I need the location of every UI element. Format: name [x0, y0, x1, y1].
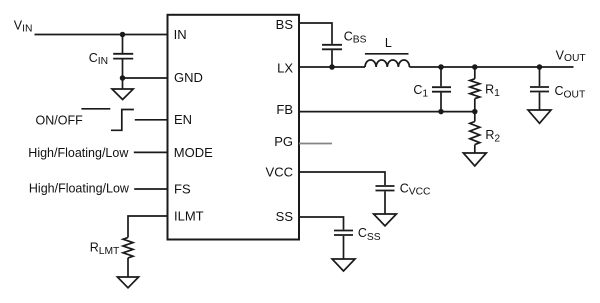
- ground (CVCC): [374, 214, 397, 226]
- inductor L: [365, 54, 410, 67]
- svg-text:High/Floating/Low: High/Floating/Low: [28, 146, 129, 160]
- svg-text:CSS: CSS: [358, 226, 381, 243]
- wire inductor to VOUT: [410, 66, 574, 68]
- svg-text:COUT: COUT: [555, 84, 586, 100]
- svg-text:L: L: [385, 36, 392, 50]
- svg-text:C1: C1: [413, 83, 428, 100]
- svg-text:CBS: CBS: [344, 29, 367, 45]
- wire RLMT to ground: [127, 258, 129, 277]
- resistor RLMT: [123, 238, 133, 258]
- svg-text:RLMT: RLMT: [90, 241, 120, 257]
- capacitor CSS: [334, 231, 353, 260]
- svg-text:FB: FB: [276, 102, 293, 117]
- wire CIN to GND pin: [123, 77, 168, 79]
- ground (R2): [463, 153, 486, 166]
- junction node C1 top: [438, 64, 444, 70]
- svg-text:GND: GND: [174, 70, 203, 85]
- svg-text:FS: FS: [174, 181, 191, 196]
- svg-text:CVCC: CVCC: [400, 182, 431, 198]
- ground (input): [112, 78, 133, 100]
- capacitor C1: [432, 67, 451, 112]
- svg-text:LX: LX: [277, 61, 293, 76]
- svg-text:CIN: CIN: [89, 51, 108, 67]
- capacitor COUT: [530, 67, 549, 110]
- ground (COUT): [528, 110, 551, 123]
- svg-text:High/Floating/Low: High/Floating/Low: [29, 182, 130, 196]
- capacitor CIN: [113, 35, 133, 79]
- svg-text:ON/OFF: ON/OFF: [36, 114, 84, 128]
- junction node R1/R2: [472, 109, 478, 115]
- ground (RLMT): [117, 277, 138, 288]
- junction node GND/CIN: [120, 75, 126, 81]
- ground (CSS): [332, 259, 355, 271]
- wire pulse to EN pin: [135, 119, 168, 121]
- wire VIN to IN pin: [35, 34, 168, 36]
- svg-text:SS: SS: [276, 209, 294, 224]
- wire BS to CBS: [299, 23, 332, 44]
- svg-text:VIN: VIN: [14, 19, 33, 35]
- junction node COUT top: [537, 64, 543, 70]
- svg-text:R1: R1: [485, 83, 500, 100]
- resistor R1: [470, 67, 480, 112]
- capacitor CBS: [322, 45, 342, 67]
- svg-text:PG: PG: [274, 134, 293, 149]
- svg-text:MODE: MODE: [174, 145, 213, 160]
- wire SS to CSS: [299, 217, 344, 230]
- svg-text:R2: R2: [485, 128, 500, 145]
- junction node LX/CBS: [329, 64, 335, 70]
- wire VCC to CVCC: [299, 172, 385, 185]
- svg-text:ILMT: ILMT: [174, 208, 204, 223]
- ON/OFF pulse symbol: [81, 109, 133, 131]
- wire MODE: [134, 151, 168, 153]
- junction node R1 top: [472, 64, 478, 70]
- svg-text:IN: IN: [174, 27, 187, 42]
- PG stub (floating): [299, 143, 332, 145]
- svg-text:VOUT: VOUT: [556, 48, 587, 64]
- wire LX to inductor: [299, 66, 365, 68]
- junction node C1 bottom: [438, 109, 444, 115]
- svg-text:EN: EN: [174, 112, 192, 127]
- resistor R2: [470, 112, 480, 153]
- IC U1 body: [168, 15, 300, 240]
- wire ILMT to RLMT: [128, 216, 168, 238]
- svg-text:VCC: VCC: [266, 164, 293, 179]
- svg-text:BS: BS: [276, 17, 294, 32]
- capacitor CVCC: [376, 186, 395, 214]
- junction node VIN/CIN: [120, 32, 126, 38]
- wire FB: [299, 111, 475, 113]
- wire FS: [134, 188, 167, 190]
